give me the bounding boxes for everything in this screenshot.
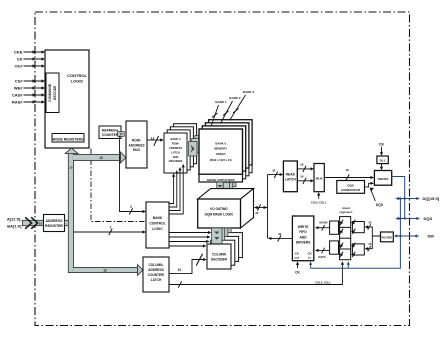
- svg-text:ADDRESS: ADDRESS: [45, 219, 63, 223]
- wire: data bus to read latch (32): [268, 169, 284, 178]
- svg-text:LATCH: LATCH: [151, 278, 162, 282]
- svg-text:COUNTER/: COUNTER/: [148, 273, 165, 277]
- wire: column counter to column decoder (10): [169, 254, 207, 274]
- block: DRVRS: [374, 171, 391, 186]
- wire: MUX to DRVRS (16): [324, 168, 374, 180]
- svg-text:MUX: MUX: [133, 148, 141, 152]
- svg-text:A[12:0],: A[12:0],: [7, 217, 22, 222]
- wire: row-address mux to bank row-address latch/decoder, 13: [147, 136, 164, 146]
- svg-text:CK: CK: [379, 142, 385, 146]
- svg-text:DQS: DQS: [424, 216, 433, 221]
- svg-text:DLL: DLL: [380, 159, 386, 163]
- block: I/O gating / DQM mask logic (3D): [198, 189, 254, 228]
- wire: vertical data bus junction read/write: [267, 175, 269, 239]
- shaded connector echoes: sense amps to I/O gating (hidden banks): [223, 173, 236, 193]
- pin CK: [17, 57, 45, 62]
- svg-text:BANK 3: BANK 3: [243, 90, 254, 94]
- pin CS#: [15, 79, 45, 84]
- wire: address riser to bank control logic (2) lower: [74, 225, 147, 235]
- svg-text:GENERATOR: GENERATOR: [341, 188, 361, 192]
- wire: MASK into write FIFO: [315, 221, 330, 231]
- svg-text:COL0, COL1: COL0, COL1: [315, 280, 331, 284]
- svg-text:16: 16: [345, 168, 349, 172]
- svg-text:CONTROL: CONTROL: [149, 222, 165, 226]
- svg-text:DRIVERS: DRIVERS: [296, 241, 311, 245]
- svg-text:15: 15: [69, 166, 73, 170]
- bank 3 leader line: [230, 90, 255, 121]
- svg-text:13: 13: [151, 136, 155, 140]
- bank 2 leader line: [221, 96, 241, 124]
- svg-text:in: in: [308, 255, 311, 259]
- svg-text:BANK 0: BANK 0: [215, 141, 226, 145]
- shaded connector stack: I/O gating to column decoders: [212, 228, 232, 244]
- svg-text:LOGIC: LOGIC: [152, 227, 163, 231]
- shaded connector: refresh counter to row-address mux: [118, 132, 125, 137]
- block: bank 0 memory array: [199, 129, 243, 174]
- wire: COL0 select stub into MUX: [311, 192, 327, 204]
- svg-text:COUNTER: COUNTER: [102, 133, 119, 137]
- internal dash-dot control boundary line: [91, 149, 146, 222]
- block: MUX: [314, 164, 324, 192]
- block: input register right stage boxes: [352, 222, 364, 256]
- svg-text:COL0, COL1: COL0, COL1: [311, 201, 327, 205]
- svg-text:16: 16: [368, 221, 372, 225]
- svg-text:DQS: DQS: [347, 183, 354, 187]
- DQS callout label: [370, 187, 384, 207]
- input registers label: [339, 206, 352, 214]
- address input bus A[12:0],BA[1:0]: [7, 217, 44, 229]
- svg-text:COLUMN: COLUMN: [212, 253, 227, 257]
- svg-text:13: 13: [99, 156, 103, 160]
- svg-text:LOGIC: LOGIC: [71, 79, 84, 84]
- svg-text:16: 16: [300, 175, 304, 179]
- blue wire: DQS line: [396, 217, 420, 220]
- svg-text:CS#: CS#: [15, 79, 24, 84]
- block: address register: [44, 215, 65, 232]
- wire: DQS generator to DRVRS: [365, 182, 375, 187]
- block: column-address counter/latch: [143, 257, 169, 292]
- svg-text:CONTROL: CONTROL: [67, 73, 87, 78]
- svg-text:15: 15: [39, 222, 43, 226]
- blue wire: receive net vertical to CK in: [309, 199, 400, 269]
- svg-text:DECODE: DECODE: [53, 85, 57, 100]
- svg-text:READ: READ: [286, 172, 296, 176]
- svg-text:BANK 2: BANK 2: [229, 96, 240, 100]
- svg-text:32: 32: [278, 232, 282, 236]
- block: sense amplifiers: [199, 174, 243, 182]
- svg-text:12: 12: [103, 269, 107, 273]
- svg-text:ROW-: ROW-: [172, 142, 180, 146]
- svg-text:ARRAY: ARRAY: [216, 152, 226, 156]
- svg-text:ROW-: ROW-: [132, 139, 141, 143]
- svg-text:WRITE: WRITE: [298, 225, 309, 229]
- svg-text:BANK: BANK: [153, 216, 163, 220]
- svg-text:DQS: DQS: [376, 203, 384, 207]
- svg-text:32: 32: [272, 169, 276, 173]
- block: read latch: [283, 161, 297, 192]
- svg-text:COLUMN-: COLUMN-: [148, 263, 163, 267]
- block: row-address mux: [126, 121, 147, 168]
- svg-text:ADDRESS: ADDRESS: [128, 143, 145, 147]
- blue wire: DRVRS output to DQ/DQS net: [392, 177, 405, 219]
- svg-text:registers: registers: [339, 210, 352, 214]
- wires: bank control logic to row decoders: [169, 164, 185, 214]
- wire: column counter COL0 select to input registers (long bottom run): [169, 261, 344, 288]
- svg-text:AND: AND: [173, 155, 179, 159]
- svg-text:MEMORY: MEMORY: [214, 147, 227, 151]
- svg-text:DQ[15:0]: DQ[15:0]: [423, 196, 440, 201]
- svg-text:16: 16: [368, 242, 372, 246]
- wires: bank control logic to column decoders: [169, 231, 211, 248]
- svg-text:CK: CK: [17, 57, 23, 62]
- svg-text:ADDRESS: ADDRESS: [169, 146, 182, 150]
- arrows: right stage into cells: [351, 220, 355, 257]
- svg-text:DRVRS: DRVRS: [378, 177, 389, 181]
- blue wire: branch up into input registers: [347, 261, 350, 268]
- chip boundary dash-dot border: [35, 12, 410, 326]
- block: bank control logic: [146, 202, 169, 248]
- blue wire: DQ line: [396, 197, 420, 200]
- block stack: bank row-address latch and decoder (banks 3..0): [164, 124, 197, 173]
- svg-text:FIFO: FIFO: [299, 230, 307, 234]
- svg-text:MODE REGISTERS: MODE REGISTERS: [53, 137, 84, 141]
- svg-text:CKE: CKE: [14, 50, 23, 55]
- svg-text:AND: AND: [300, 235, 308, 239]
- pin WE#: [14, 86, 45, 91]
- svg-text:out: out: [295, 255, 300, 259]
- svg-text:MASK: MASK: [319, 221, 327, 225]
- wires: RCVRS to input register stages: [365, 221, 381, 252]
- svg-text:RAS#: RAS#: [12, 100, 23, 105]
- svg-text:2: 2: [110, 225, 112, 229]
- svg-text:DATA: DATA: [318, 255, 325, 259]
- svg-text:LATCH: LATCH: [285, 177, 297, 181]
- arrows: cells into left stage: [339, 220, 343, 257]
- blue wire: DM line into RCVRS: [394, 234, 419, 237]
- svg-text:(8192 x 1024 x 16): (8192 x 1024 x 16): [210, 158, 232, 162]
- wire: address tap to bank control logic (2) upper: [120, 136, 147, 214]
- block stack: column decoders (banks 3..1): [211, 233, 243, 266]
- svg-text:2: 2: [130, 205, 132, 209]
- block: RCVRS: [381, 232, 394, 242]
- svg-text:10: 10: [178, 268, 182, 272]
- block stack: memory arrays banks 3..1 with sense amp slivers: [202, 120, 252, 179]
- block: mode registers: [52, 134, 84, 143]
- pin CK#: [14, 64, 45, 69]
- svg-text:DQM MASK LOGIC: DQM MASK LOGIC: [205, 213, 234, 217]
- svg-text:DECODER: DECODER: [211, 258, 228, 262]
- block: write FIFO and drivers: [292, 216, 313, 261]
- svg-text:BANK 1: BANK 1: [215, 100, 226, 104]
- wire: write FIFO output to data bus (32): [268, 232, 293, 242]
- svg-text:REFRESH: REFRESH: [102, 128, 118, 132]
- svg-text:SENSE AMPLIFIERS: SENSE AMPLIFIERS: [207, 178, 235, 182]
- pin CK into DLL: [379, 142, 385, 155]
- block: DQS generator: [337, 181, 365, 194]
- svg-text:DM: DM: [428, 234, 435, 239]
- svg-text:RCVRS: RCVRS: [382, 236, 393, 240]
- block: column decoder bank 0: [207, 244, 231, 269]
- block: input register left stage boxes: [330, 221, 339, 254]
- svg-text:MUX: MUX: [316, 176, 324, 180]
- svg-text:ADDRESS: ADDRESS: [148, 268, 164, 272]
- bus arrow into mode registers: [65, 148, 78, 154]
- pin RAS#: [12, 100, 45, 105]
- block: input register cell column: [340, 217, 351, 260]
- wires: read latch to MUX (16,16): [297, 163, 314, 184]
- svg-text:BA[1:0]: BA[1:0]: [7, 224, 22, 229]
- svg-text:32: 32: [255, 211, 259, 215]
- thick shaded address bus: register to riser, riser up/down, branches: [65, 148, 143, 276]
- svg-text:LATCH: LATCH: [171, 150, 180, 154]
- bus arrow into row-address mux: [121, 152, 126, 163]
- block: command decode (vertical): [46, 73, 59, 113]
- svg-text:CAS#: CAS#: [12, 93, 23, 98]
- pin CKE: [14, 50, 45, 55]
- shaded arrow: sense amplifiers to I/O gating: [214, 182, 226, 199]
- svg-text:DECODER: DECODER: [169, 159, 182, 163]
- wire: DATA into write FIFO: [315, 248, 330, 260]
- block: control logic: [45, 50, 89, 148]
- svg-text:COMMAND: COMMAND: [48, 83, 52, 102]
- shaded connector: row decoder to memory array: [189, 135, 204, 156]
- pin CK stub into write FIFO: [295, 261, 300, 274]
- wire: I/O gating bidirectional data bus (32): [254, 204, 267, 214]
- bank 1 leader line: [211, 100, 227, 127]
- svg-text:16: 16: [300, 163, 304, 167]
- svg-text:BANK 0: BANK 0: [170, 137, 181, 141]
- block: DLL: [377, 156, 388, 164]
- bus arrow into column-address counter: [138, 265, 143, 276]
- svg-text:WE#: WE#: [14, 86, 23, 91]
- wire: DLL to DRVRS: [380, 164, 383, 171]
- svg-text:CK: CK: [295, 271, 300, 275]
- svg-text:CK#: CK#: [14, 64, 23, 69]
- pin CAS#: [12, 93, 45, 98]
- block: refresh counter: [99, 126, 121, 139]
- svg-text:I/O GATING: I/O GATING: [210, 207, 228, 211]
- svg-text:REGISTER: REGISTER: [45, 224, 63, 228]
